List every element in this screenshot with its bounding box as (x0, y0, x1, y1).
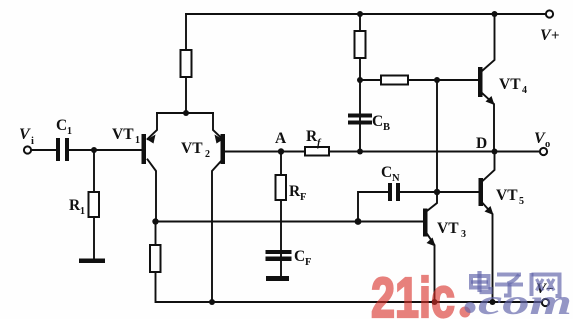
svg-text:B: B (383, 122, 390, 133)
svg-text:4: 4 (522, 85, 527, 96)
svg-text:C: C (372, 113, 383, 130)
svg-text:2: 2 (205, 149, 210, 160)
svg-text:VT: VT (496, 187, 518, 204)
svg-text:N: N (392, 173, 400, 184)
svg-text:VT: VT (499, 76, 521, 93)
svg-text:i: i (31, 136, 34, 147)
svg-text:o: o (545, 139, 550, 150)
svg-text:V: V (19, 126, 31, 143)
svg-text:A: A (275, 130, 287, 147)
svg-text:+: + (551, 28, 560, 44)
svg-text:C: C (381, 164, 392, 181)
svg-text:C: C (56, 117, 67, 134)
svg-text:C: C (294, 248, 305, 265)
svg-text:F: F (305, 257, 311, 268)
svg-text:D: D (476, 135, 487, 152)
svg-text:1: 1 (80, 206, 85, 217)
svg-text:21ic: 21ic (371, 266, 455, 319)
svg-text:VT: VT (112, 126, 134, 143)
svg-text:VT: VT (181, 140, 203, 157)
svg-text:com: com (478, 282, 572, 319)
svg-text:5: 5 (519, 196, 524, 207)
svg-text:VT: VT (437, 220, 459, 237)
svg-text:1: 1 (67, 126, 72, 137)
svg-text:3: 3 (461, 229, 466, 240)
svg-text:1: 1 (135, 135, 140, 146)
svg-text:F: F (300, 192, 306, 203)
